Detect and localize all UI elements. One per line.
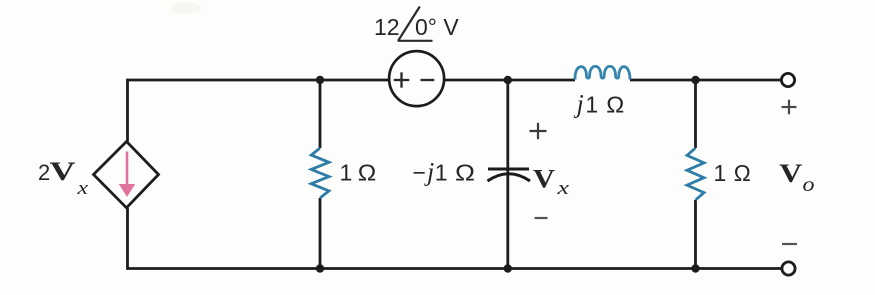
resistor R1 (1 ohm) <box>311 148 329 198</box>
wire: vertical through R2 branch bottom <box>694 200 697 269</box>
node F: junction dot bottom of R2 <box>691 264 699 272</box>
svg-text:x: x <box>556 178 570 199</box>
wire top-middle: source to inductor <box>444 79 576 82</box>
node C: junction dot top of R2 <box>691 76 699 84</box>
inductor L1 (j1 ohm) <box>575 66 630 79</box>
wire bottom run <box>128 208 782 269</box>
node D: junction dot bottom of R1 <box>316 264 324 272</box>
label 1 ohm (R1) <box>340 160 377 186</box>
svg-text:Ω: Ω <box>734 160 751 186</box>
svg-text:Ω: Ω <box>606 92 624 118</box>
svg-text:2: 2 <box>38 160 50 185</box>
label -j1 ohm (C1) <box>413 158 476 187</box>
wire: vertical through R1 branch bottom <box>319 198 322 269</box>
wire: vertical through R2 branch top <box>694 80 697 148</box>
svg-text:V: V <box>533 165 555 194</box>
svg-text:o: o <box>803 172 815 196</box>
polarity - for Vo <box>782 243 797 245</box>
voltage source U1: 12∠0° V <box>389 51 444 106</box>
resistor R2 (1 ohm) <box>687 148 704 200</box>
wire top-right: inductor to terminal <box>630 79 781 82</box>
node B: junction dot top of capacitor <box>504 76 512 84</box>
node A: junction dot top of R1 <box>316 76 324 84</box>
label 2Vx <box>38 157 89 199</box>
svg-text:V: V <box>779 159 802 188</box>
svg-text:1: 1 <box>435 160 448 186</box>
polarity + for Vx <box>530 123 547 139</box>
wire: capacitor branch vertical <box>506 80 509 269</box>
dependent current source 2Vx (diamond with arrow) <box>94 142 159 208</box>
output terminal top <box>781 73 794 86</box>
node E: junction dot bottom of capacitor <box>504 264 512 272</box>
output terminal bottom <box>782 262 795 275</box>
label 12∠0° V <box>374 7 459 42</box>
label Vx <box>533 165 570 200</box>
wire top-left: left vertical + top run to source <box>128 80 391 142</box>
polarity + for Vo <box>782 100 797 115</box>
svg-text:Ω: Ω <box>358 160 377 186</box>
svg-text:x: x <box>76 178 88 199</box>
label j1 ohm (L1) <box>574 90 625 119</box>
polarity - for Vx <box>535 217 548 219</box>
wire: vertical through R1 branch top <box>319 80 322 148</box>
svg-text:1: 1 <box>714 160 727 186</box>
svg-text:−: − <box>413 160 426 186</box>
capacitor C1 (-j1 ohm) <box>488 169 531 181</box>
svg-text:0° V: 0° V <box>415 14 459 40</box>
svg-text:1: 1 <box>340 160 353 186</box>
svg-text:Ω: Ω <box>455 160 475 186</box>
label 1 ohm (R2) <box>714 160 751 186</box>
svg-text:j: j <box>574 90 584 119</box>
svg-text:12: 12 <box>374 14 400 40</box>
svg-text:1: 1 <box>585 92 598 118</box>
svg-text:V: V <box>50 157 76 186</box>
label Vo <box>779 159 814 196</box>
